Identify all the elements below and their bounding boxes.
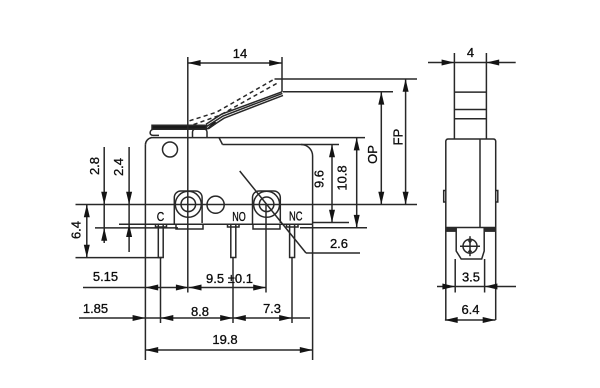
body right edge (312, 156, 314, 224)
arrow 14 left (188, 60, 201, 66)
dim 3.5 line (437, 286, 516, 288)
lever arm base wedge (206, 121, 217, 129)
terminal NC pin (290, 224, 295, 257)
extension line body right (312, 224, 314, 360)
extension line body left (144, 224, 146, 360)
dim row 1.85 / 8.8 / 7.3 line (79, 317, 310, 319)
dim 9.5 line (189, 287, 266, 289)
svg-text:1.85: 1.85 (83, 301, 108, 316)
switch body top-left edge with extension to right (151, 137, 365, 139)
lever arm solid lower edge (208, 95, 283, 128)
terminal NO pin (231, 224, 236, 257)
boss 1 foot (176, 224, 203, 229)
svg-text:9.5 ±0.1: 9.5 ±0.1 (206, 271, 253, 286)
arrow 6.4 side right (483, 317, 496, 323)
lever dashed free position upper (190, 79, 275, 121)
lever arm solid top edge (206, 92, 282, 124)
body left edge (144, 145, 146, 224)
svg-text:10.8: 10.8 (335, 165, 350, 190)
FP extension line (275, 78, 418, 80)
boss hole 2 inner (259, 197, 274, 212)
arrow 3.5 left outside (442, 284, 455, 290)
arrow 19.8 right (300, 347, 313, 353)
arrow FP top (403, 79, 409, 92)
arrow 2.8 top outside (101, 192, 107, 205)
svg-text:19.8: 19.8 (212, 332, 237, 347)
side view body top shoulder left (444, 191, 446, 203)
OP extension line (283, 91, 393, 93)
arrow OP bottom (378, 192, 384, 205)
arrow 14 right (269, 60, 282, 66)
extension line 14 right (281, 57, 283, 92)
dim 14 line (188, 62, 282, 64)
dim 4 line doubling as lever top (428, 62, 516, 64)
boss hole 1 inner (181, 197, 196, 212)
arrow 10.8 bottom (354, 215, 360, 228)
side view lever division 1 (454, 91, 486, 93)
svg-text:3.5: 3.5 (462, 270, 480, 285)
NC tab shoulder (287, 224, 299, 227)
arrow 7.3 right (279, 315, 292, 321)
arrow 10.8 top (354, 138, 360, 151)
side view lever division 3 (454, 118, 486, 120)
dim 3.5 extension tick right (484, 259, 486, 293)
side view lever division 2 (454, 109, 486, 111)
arrow 9.5 left (189, 285, 202, 291)
arrow 4 left outside (442, 60, 455, 66)
arrow 8.8 right (220, 315, 233, 321)
arrow OP top (378, 92, 384, 105)
dim 2.4 vertical line (128, 147, 130, 252)
arrow FP bottom (403, 192, 409, 205)
svg-text:4: 4 (467, 45, 474, 60)
dim FP vertical line (405, 79, 407, 205)
svg-text:C: C (157, 210, 165, 224)
cap dark band right (484, 228, 496, 232)
extension line boss2 center (265, 205, 267, 293)
extension line boss1 center / 14 left (187, 57, 189, 293)
dim 6.4 left vertical line (86, 205, 88, 258)
arrow 4 right outside (486, 60, 499, 66)
crosshair circle (463, 239, 477, 253)
mounting hole (163, 142, 178, 157)
left 2.8 bottom stub (95, 227, 178, 229)
dim 2.8 vertical line (103, 147, 105, 243)
side view body outline (446, 139, 496, 320)
svg-text:NC: NC (289, 210, 303, 224)
side view body top shoulder right (496, 191, 498, 203)
arrow 19.8 left (145, 347, 158, 353)
cap dark band left (446, 228, 456, 232)
side view lever right edge (485, 53, 487, 139)
dim 5.15 line (83, 287, 189, 289)
arrow 5.15 right (176, 285, 189, 291)
svg-text:6.4: 6.4 (461, 302, 479, 317)
svg-text:9.6: 9.6 (312, 170, 327, 188)
crosshair notch bottom (468, 249, 473, 253)
arrow 6.4 left bottom (84, 245, 90, 258)
body stepped top edge with extension stub (223, 144, 340, 146)
svg-text:7.3: 7.3 (263, 301, 281, 316)
plunger bump (193, 129, 208, 137)
dim OP vertical line (380, 92, 382, 205)
boss hole 1 outer (175, 191, 201, 217)
terminal C pin (158, 224, 163, 257)
svg-text:2.8: 2.8 (87, 157, 102, 175)
body bottom edge (145, 223, 312, 225)
leader 2.6 tail (306, 252, 360, 254)
lever dashed free position lower (194, 83, 278, 125)
svg-text:2.6: 2.6 (330, 236, 348, 251)
arrow 5.15 left (145, 285, 158, 291)
body top-left corner (145, 138, 151, 145)
boss tab 1 (174, 191, 202, 224)
side view inner wall (479, 139, 481, 228)
hinge left curl (150, 129, 159, 135)
arrow 1.85 left outside (133, 315, 146, 321)
extension line C pin center (160, 258, 162, 323)
svg-text:14: 14 (233, 46, 247, 61)
lever hinge base plate (152, 125, 207, 129)
dim 10.8 vertical line (356, 138, 358, 228)
dim 6.4 side line (445, 319, 496, 321)
crosshair notch top (468, 240, 473, 244)
9.6 bottom extension stub (313, 222, 349, 224)
lever arm solid mid edge (207, 93, 283, 126)
arrow 2.8 bottom outside (101, 228, 107, 241)
boss 2 foot (253, 224, 280, 229)
pin bottom extension line (76, 257, 163, 259)
leader 2.6 diagonal (240, 171, 306, 253)
arrow 9.6 bottom (329, 210, 335, 223)
boss tab 2 (253, 191, 281, 224)
left 2.4 bottom stub (119, 223, 158, 225)
extension line NO pin center (232, 258, 234, 323)
svg-text:2.4: 2.4 (111, 158, 126, 176)
arrow 9.5 right (253, 285, 266, 291)
crosshair horizontal (460, 245, 480, 247)
svg-text:NO: NO (232, 210, 246, 224)
arrow 7.3 left (233, 315, 246, 321)
side view cap top line (446, 227, 496, 229)
side view plug (456, 228, 484, 260)
svg-text:6.4: 6.4 (69, 221, 84, 239)
dim 9.6 vertical line (331, 145, 333, 223)
side view lever left edge (453, 53, 455, 139)
dim 19.8 line (145, 349, 312, 351)
svg-text:FP: FP (391, 129, 406, 146)
arrow 2.4 bottom outside (126, 224, 132, 237)
C tab shoulder (156, 224, 167, 227)
10.8 bottom extension stub (300, 227, 367, 229)
svg-text:OP: OP (365, 145, 380, 164)
svg-text:8.8: 8.8 (191, 304, 209, 319)
centerline through boss holes (76, 204, 418, 206)
dim 3.5 extension tick left (454, 259, 456, 293)
arrow 2.4 top outside (126, 192, 132, 205)
boss hole 2 outer (254, 191, 280, 217)
body top-right corner (301, 144, 313, 156)
arrow 9.6 top (329, 145, 335, 158)
crosshair vertical (469, 236, 471, 256)
arrow 1.85 right / 8.8 left (161, 315, 174, 321)
extension line NC pin center (291, 258, 293, 323)
arrow 6.4 left top (84, 205, 90, 218)
arrow 3.5 right outside (485, 284, 498, 290)
arrow 6.4 side left (445, 317, 458, 323)
svg-text:5.15: 5.15 (93, 269, 118, 284)
body top step diagonal (219, 138, 223, 145)
NO tab shoulder (228, 224, 240, 227)
plain circle (207, 196, 224, 213)
